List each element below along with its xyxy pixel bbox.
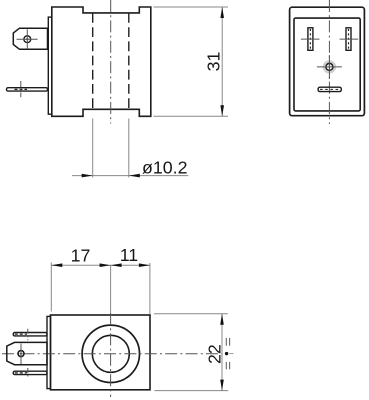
dim 31 extension lines (154, 6, 229, 8)
bottom view outer circle (82, 325, 139, 382)
side view tab hole crosshair (17, 38, 38, 40)
bottom view vertical centerline (110, 266, 112, 314)
bottom view ground tab (7, 342, 47, 364)
side view tab hole (24, 36, 31, 43)
front view inner face (294, 18, 360, 111)
front view center hole halo (324, 61, 335, 72)
bottom view upper blade (13, 333, 47, 336)
bottom view lower blade (13, 371, 47, 374)
bottom view inner circle (92, 335, 129, 372)
dim 31 arrow up (220, 7, 224, 18)
front view center hole (326, 63, 333, 70)
side view vertical centerline (110, 0, 112, 124)
front view center hole crosshair (317, 66, 342, 68)
dim 17/11 dimension line (51, 264, 150, 266)
svg-text:11: 11 (120, 245, 139, 265)
bottom view tab hole (18, 351, 24, 357)
svg-text:17: 17 (71, 246, 91, 266)
dim 31 arrow down (220, 105, 224, 116)
side view coil body outline (52, 7, 151, 116)
svg-text:31: 31 (203, 52, 223, 72)
side view blade crosshair (20, 81, 22, 97)
dim 11 arrow right (139, 263, 150, 267)
front view bottom slot (318, 87, 341, 91)
svg-text:22: 22 (205, 344, 225, 364)
dim diameter 10.2 extension lines (92, 119, 94, 178)
dim 11 arrow left (111, 263, 122, 267)
dim diameter 10.2 dimension line (72, 175, 188, 177)
side view terminal blade (7, 88, 48, 91)
front view right pin slot (346, 28, 351, 51)
dim 22 dimension line (221, 314, 223, 391)
symmetry reference dot (225, 352, 228, 355)
side view bore hidden line left (92, 13, 94, 109)
front view vertical centerline (328, 0, 330, 124)
side view bore hidden line right (128, 13, 130, 109)
symmetry marks upper (225, 338, 227, 346)
side view blade hidden mid line (15, 88, 28, 90)
dim 22 arrow down (220, 380, 224, 391)
front view left pin slot (308, 28, 313, 51)
bottom view tab hole crosshair (20, 344, 22, 365)
symmetry marks lower (225, 362, 227, 369)
dim diameter 10.2 arrow right-inward (129, 174, 140, 178)
dim 17/11 extension line left (50, 263, 52, 312)
side view mounting flange (48, 17, 52, 114)
dim 17 arrow left (51, 263, 62, 267)
dim 31 dimension line (221, 7, 223, 116)
dim 22 arrow up (220, 314, 224, 325)
dim 22 extension lines (154, 313, 228, 315)
side view ground tab (13, 28, 47, 49)
dim 17/11 extension line right (149, 263, 151, 315)
bottom view mounting flange (47, 316, 51, 388)
dim diameter 10.2 arrow left-inward (82, 174, 93, 178)
svg-text:ø10.2: ø10.2 (142, 158, 187, 178)
front view outer body (290, 7, 365, 116)
bottom view body outline (51, 315, 151, 390)
bottom view horizontal centerline (2, 353, 223, 355)
dim 17 arrow right (100, 263, 111, 267)
